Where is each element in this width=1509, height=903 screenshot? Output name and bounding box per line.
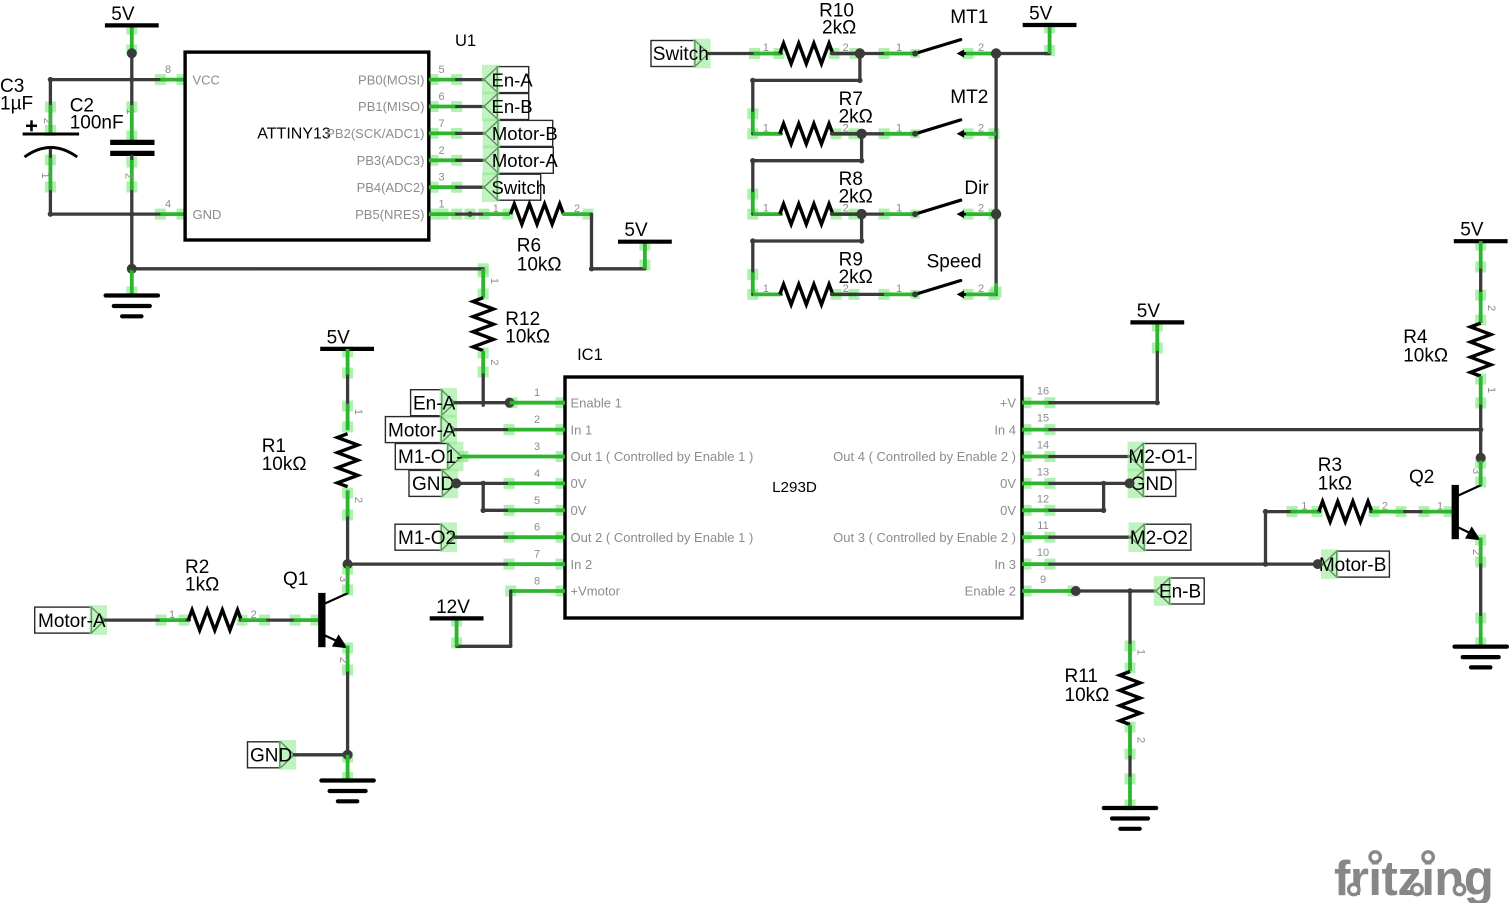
svg-text:12V: 12V: [436, 597, 470, 618]
svg-text:3: 3: [439, 172, 445, 184]
svg-text:En-B: En-B: [1159, 582, 1201, 603]
svg-text:1: 1: [124, 108, 136, 114]
svg-text:5: 5: [534, 495, 540, 507]
svg-text:5V: 5V: [1137, 301, 1161, 322]
svg-text:1: 1: [534, 387, 540, 399]
svg-text:VCC: VCC: [193, 72, 220, 87]
svg-text:4: 4: [165, 199, 171, 211]
svg-text:10: 10: [1037, 547, 1049, 559]
svg-text:M2-O1-: M2-O1-: [1128, 447, 1192, 468]
svg-text:GND: GND: [193, 207, 222, 222]
svg-text:PB2(SCK/ADC1): PB2(SCK/ADC1): [326, 126, 424, 141]
svg-text:5: 5: [439, 64, 445, 76]
svg-text:3: 3: [337, 576, 349, 582]
svg-text:2: 2: [1135, 737, 1147, 743]
svg-text:13: 13: [1037, 466, 1049, 478]
svg-text:2: 2: [1485, 305, 1497, 311]
svg-text:100nF: 100nF: [70, 112, 124, 133]
svg-text:1: 1: [1135, 649, 1147, 655]
svg-text:12: 12: [1037, 493, 1049, 505]
svg-text:Switch: Switch: [653, 44, 709, 65]
svg-text:1: 1: [1301, 500, 1307, 512]
svg-text:M1-O1-: M1-O1-: [398, 447, 462, 468]
svg-text:2: 2: [123, 173, 135, 179]
svg-text:1: 1: [896, 203, 902, 215]
svg-text:PB0(MOSI): PB0(MOSI): [358, 72, 424, 87]
svg-text:1: 1: [493, 203, 499, 215]
svg-text:M1-O2: M1-O2: [398, 528, 456, 549]
svg-text:Out 1 ( Controlled by Enable 1: Out 1 ( Controlled by Enable 1 ): [571, 449, 754, 464]
svg-text:GND: GND: [250, 746, 292, 767]
svg-text:En-A: En-A: [492, 69, 534, 90]
svg-text:1µF: 1µF: [0, 94, 33, 115]
svg-text:U1: U1: [455, 32, 476, 50]
svg-text:Dir: Dir: [964, 178, 989, 199]
svg-text:ATTINY13: ATTINY13: [257, 125, 331, 142]
svg-text:1: 1: [169, 609, 175, 621]
svg-text:2kΩ: 2kΩ: [839, 267, 873, 288]
svg-text:R6: R6: [517, 236, 541, 257]
svg-text:0V: 0V: [1000, 476, 1016, 491]
svg-text:Q1: Q1: [283, 569, 308, 590]
svg-text:1: 1: [763, 283, 769, 295]
svg-text:MT2: MT2: [950, 87, 988, 108]
svg-text:Out 4 ( Controlled by Enable 2: Out 4 ( Controlled by Enable 2 ): [833, 449, 1016, 464]
svg-text:Enable 1: Enable 1: [571, 395, 622, 410]
svg-text:6: 6: [534, 522, 540, 534]
svg-text:3: 3: [1470, 468, 1482, 474]
svg-text:0V: 0V: [571, 476, 587, 491]
svg-text:En-A: En-A: [413, 393, 456, 414]
svg-text:2: 2: [978, 122, 984, 134]
svg-text:1: 1: [352, 409, 364, 415]
svg-text:In 4: In 4: [994, 422, 1016, 437]
svg-text:IC1: IC1: [577, 346, 603, 364]
svg-text:1: 1: [763, 122, 769, 134]
svg-text:5V: 5V: [624, 220, 648, 241]
svg-text:11: 11: [1037, 520, 1048, 532]
svg-text:1kΩ: 1kΩ: [185, 575, 219, 596]
svg-text:2: 2: [488, 359, 500, 365]
svg-text:PB1(MISO): PB1(MISO): [358, 99, 424, 114]
svg-text:4: 4: [534, 468, 540, 480]
svg-text:L293D: L293D: [772, 479, 817, 496]
svg-text:2: 2: [978, 42, 984, 54]
svg-text:1kΩ: 1kΩ: [1318, 474, 1352, 495]
svg-text:10kΩ: 10kΩ: [505, 327, 550, 348]
svg-text:1: 1: [896, 122, 902, 134]
svg-text:16: 16: [1037, 386, 1049, 398]
svg-text:PB5(NRES): PB5(NRES): [355, 207, 424, 222]
svg-text:Motor-B: Motor-B: [1319, 555, 1387, 576]
svg-text:Motor-A: Motor-A: [388, 420, 456, 441]
svg-text:6: 6: [439, 91, 445, 103]
svg-text:M2-O2: M2-O2: [1130, 528, 1188, 549]
svg-text:Motor-A: Motor-A: [38, 611, 106, 632]
svg-text:10kΩ: 10kΩ: [517, 255, 562, 276]
svg-text:2: 2: [439, 145, 445, 157]
svg-text:2kΩ: 2kΩ: [839, 106, 873, 127]
svg-text:Out 3 ( Controlled by Enable 2: Out 3 ( Controlled by Enable 2 ): [833, 530, 1016, 545]
svg-text:GND: GND: [412, 474, 454, 495]
svg-text:Motor-B: Motor-B: [492, 123, 558, 144]
svg-text:1: 1: [439, 199, 445, 211]
svg-text:2: 2: [1470, 549, 1482, 555]
svg-text:10kΩ: 10kΩ: [1065, 685, 1110, 706]
svg-text:Enable 2: Enable 2: [965, 584, 1016, 599]
svg-text:1: 1: [763, 42, 769, 54]
svg-text:2: 2: [41, 118, 53, 124]
svg-text:5V: 5V: [1460, 220, 1484, 241]
svg-text:En-B: En-B: [492, 96, 533, 117]
svg-text:10kΩ: 10kΩ: [262, 454, 307, 475]
svg-text:In 2: In 2: [571, 557, 593, 572]
svg-text:2kΩ: 2kΩ: [839, 187, 873, 208]
svg-text:R11: R11: [1065, 666, 1098, 687]
svg-text:Switch: Switch: [492, 177, 547, 198]
svg-text:In 3: In 3: [994, 557, 1016, 572]
svg-text:2: 2: [978, 203, 984, 215]
svg-text:1: 1: [1485, 387, 1497, 393]
svg-text:MT1: MT1: [950, 7, 988, 28]
svg-text:2: 2: [352, 497, 364, 503]
svg-text:10kΩ: 10kΩ: [1403, 346, 1448, 367]
svg-text:5V: 5V: [1029, 4, 1053, 25]
svg-text:1: 1: [896, 283, 902, 295]
svg-text:8: 8: [534, 576, 540, 588]
svg-text:5V: 5V: [111, 4, 135, 25]
svg-text:3: 3: [534, 441, 540, 453]
svg-text:5V: 5V: [327, 327, 351, 348]
svg-text:8: 8: [165, 64, 171, 76]
svg-text:Out 2 ( Controlled by Enable 1: Out 2 ( Controlled by Enable 1 ): [571, 530, 754, 545]
svg-text:0V: 0V: [1000, 503, 1016, 518]
svg-text:1: 1: [763, 203, 769, 215]
svg-text:0V: 0V: [571, 503, 587, 518]
svg-text:PB4(ADC2): PB4(ADC2): [357, 180, 425, 195]
svg-text:1: 1: [896, 42, 902, 54]
svg-text:PB3(ADC3): PB3(ADC3): [357, 153, 425, 168]
svg-text:+Vmotor: +Vmotor: [571, 584, 621, 599]
svg-text:GND: GND: [1131, 474, 1173, 495]
svg-text:Motor-A: Motor-A: [492, 150, 558, 171]
svg-text:Speed: Speed: [927, 252, 982, 273]
svg-text:2: 2: [534, 414, 540, 426]
svg-text:2kΩ: 2kΩ: [822, 18, 856, 39]
svg-text:2: 2: [978, 283, 984, 295]
svg-text:15: 15: [1037, 413, 1049, 425]
svg-text:9: 9: [1040, 574, 1046, 586]
svg-text:1: 1: [39, 172, 51, 178]
svg-text:+V: +V: [1000, 395, 1017, 410]
svg-text:Q2: Q2: [1409, 467, 1434, 488]
svg-text:2: 2: [337, 657, 349, 663]
svg-text:1: 1: [488, 278, 500, 284]
svg-text:14: 14: [1037, 440, 1049, 452]
svg-text:In 1: In 1: [571, 422, 593, 437]
svg-text:7: 7: [534, 549, 540, 561]
svg-text:1: 1: [1437, 500, 1443, 512]
svg-text:7: 7: [439, 118, 445, 130]
